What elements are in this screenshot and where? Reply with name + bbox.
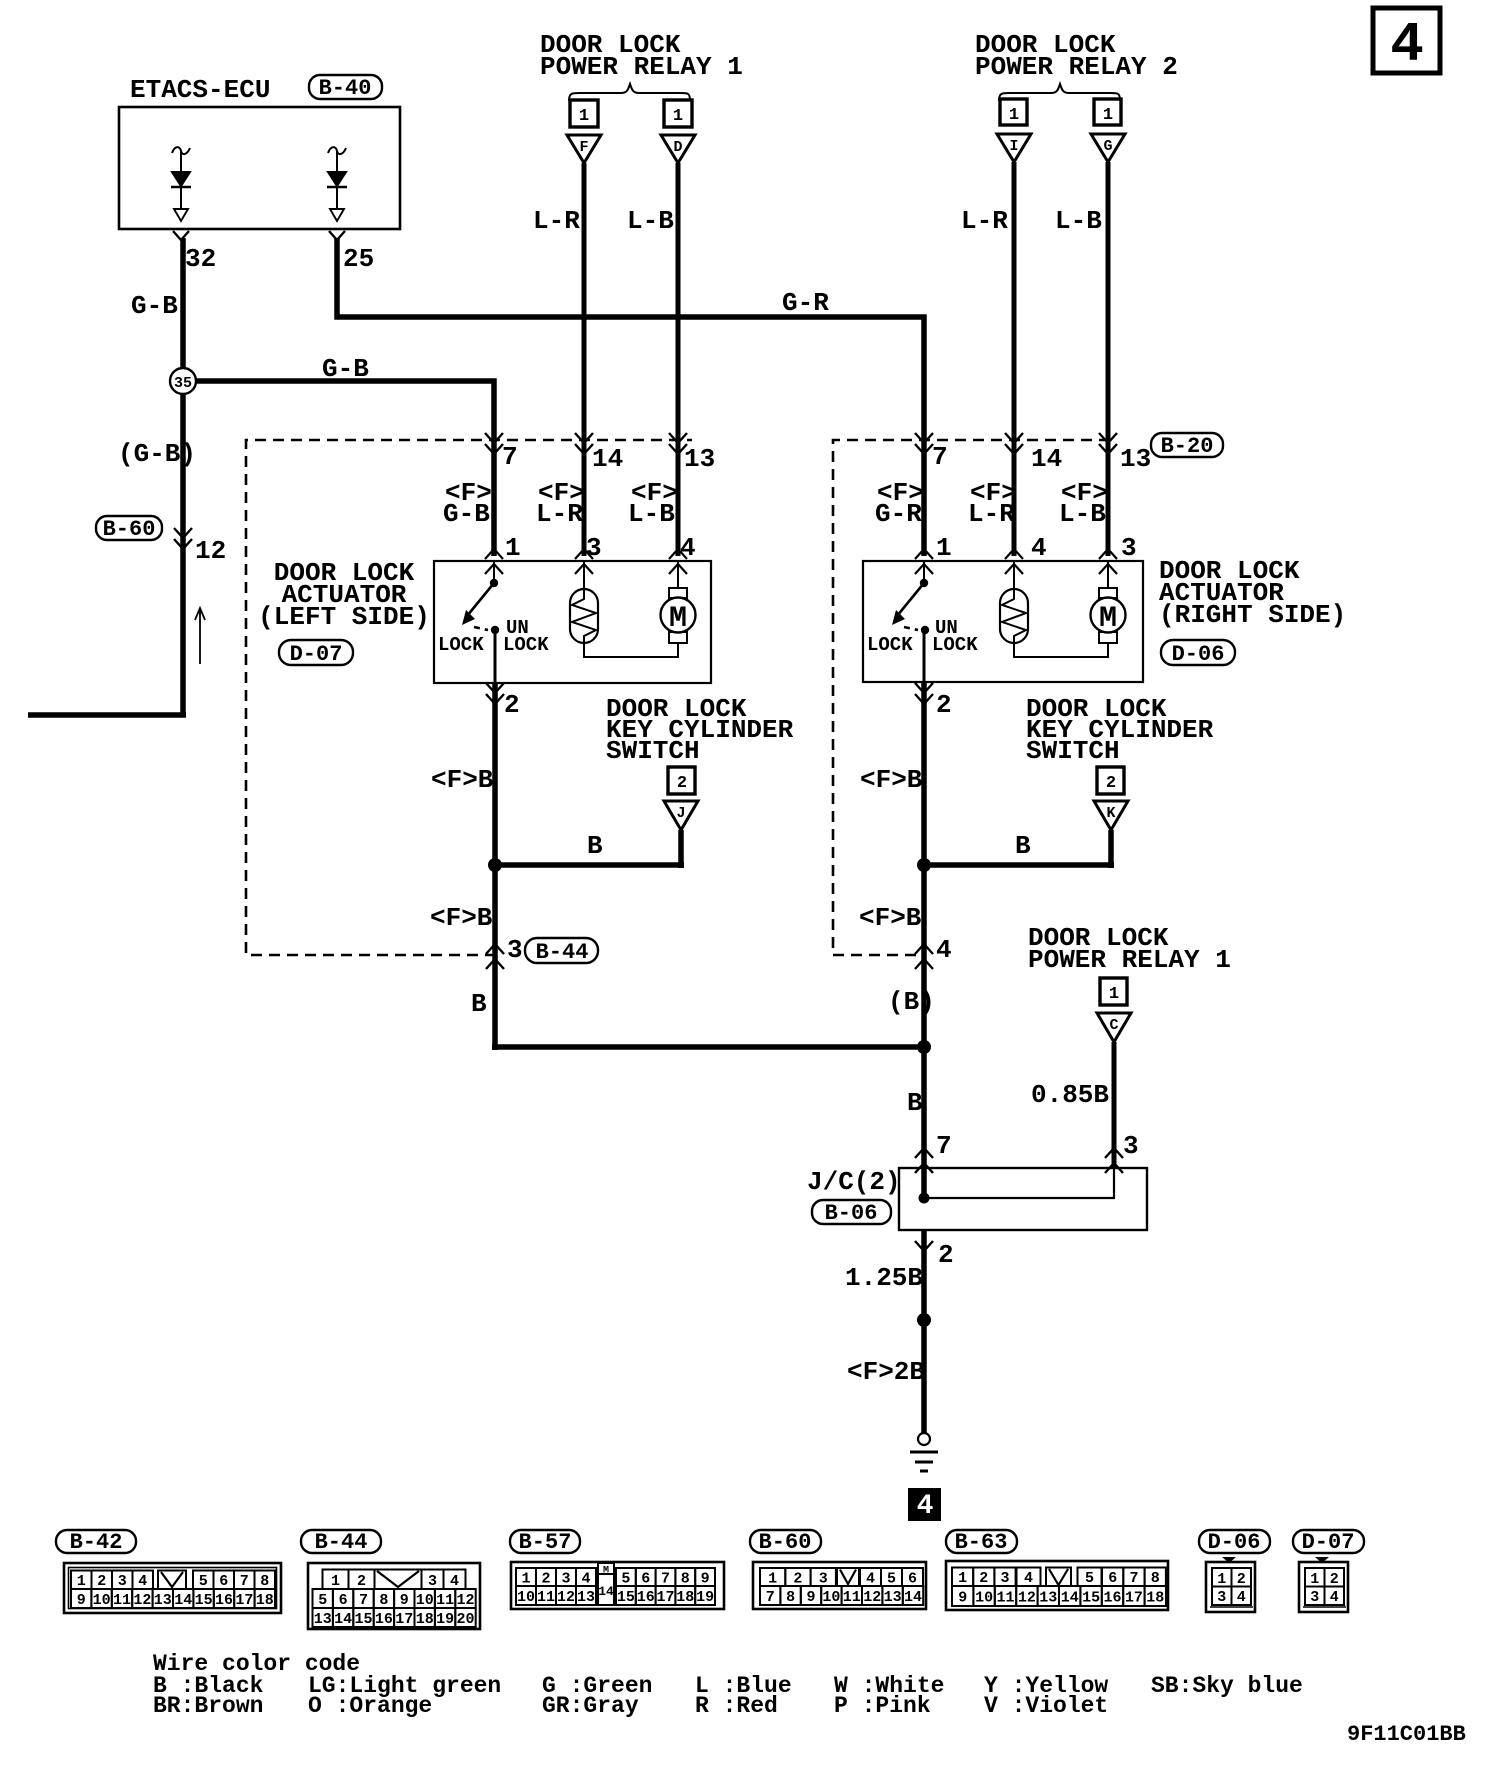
svg-text:18: 18 — [416, 1611, 434, 1628]
svg-text:17: 17 — [395, 1611, 413, 1628]
svg-text:1: 1 — [521, 1571, 530, 1588]
svg-text:<F>2B: <F>2B — [847, 1357, 925, 1387]
svg-text:<F>B: <F>B — [859, 903, 922, 933]
svg-text:B-42: B-42 — [70, 1530, 123, 1555]
svg-text:3: 3 — [1310, 1589, 1319, 1606]
svg-text:2: 2 — [938, 1240, 954, 1270]
svg-text:2: 2 — [677, 774, 687, 793]
connector pinout B-63 — [946, 1561, 1168, 1610]
wire label (F) L-R left — [536, 478, 585, 529]
connector badge B-06 — [812, 1200, 891, 1226]
svg-text:2: 2 — [504, 690, 520, 720]
connector pinout D-06 — [1206, 1557, 1255, 1612]
svg-text:14: 14 — [174, 1592, 192, 1609]
svg-text:4: 4 — [1031, 533, 1047, 563]
svg-text:12: 12 — [863, 1589, 881, 1606]
svg-text:3: 3 — [428, 1573, 437, 1590]
svg-text:4: 4 — [1390, 13, 1424, 77]
left key cylinder switch label — [606, 694, 794, 766]
right actuator dashed boundary box — [833, 440, 1114, 955]
svg-text:ETACS-ECU: ETACS-ECU — [130, 75, 270, 105]
svg-text:6: 6 — [1108, 1570, 1117, 1587]
chevrons at dashed box entry (left, pins 7 14 13) — [485, 433, 687, 454]
svg-text:5: 5 — [318, 1592, 327, 1609]
svg-text:11: 11 — [436, 1592, 454, 1609]
relay 2 triangle connector G — [1091, 134, 1125, 162]
svg-text:B: B — [587, 831, 603, 861]
svg-text:17: 17 — [235, 1592, 253, 1609]
svg-text:B-63: B-63 — [955, 1530, 1008, 1555]
svg-text:9: 9 — [77, 1592, 86, 1609]
svg-text:1: 1 — [673, 107, 683, 126]
ground reference black box 4 — [908, 1488, 941, 1522]
right switch pin1 stub — [923, 561, 925, 580]
relay 1 triangle connector D — [661, 135, 695, 163]
svg-text:POWER RELAY 1: POWER RELAY 1 — [540, 52, 743, 82]
svg-text:LOCK: LOCK — [932, 634, 978, 656]
svg-text:L-B: L-B — [1055, 206, 1102, 236]
svg-text:13: 13 — [314, 1611, 332, 1628]
wire label (F) G-R right — [875, 478, 924, 529]
svg-text:SWITCH: SWITCH — [1026, 736, 1120, 766]
wire L-R from relay2 I — [1012, 162, 1017, 556]
connector badge D-07 — [279, 640, 353, 667]
relay 1 pin box [1] (C) — [1100, 978, 1127, 1005]
wire G-B horizontal to left actuator pin 7 — [183, 381, 494, 556]
svg-text:7: 7 — [661, 1571, 670, 1588]
svg-text:2: 2 — [1330, 1571, 1339, 1588]
svg-text:11: 11 — [843, 1589, 861, 1606]
left switch blade end arrowhead — [462, 610, 475, 625]
left actuator label — [258, 558, 430, 632]
svg-text:1: 1 — [1109, 985, 1119, 1004]
relay 2 pin box [1] (G) — [1094, 99, 1121, 125]
svg-text:15: 15 — [354, 1611, 372, 1628]
wire G-R from pin 25 to right actuator pin 7 — [337, 238, 924, 556]
chevrons at J/C entry pin 7 — [915, 1148, 933, 1173]
svg-text:SB:Sky blue: SB:Sky blue — [1151, 1673, 1303, 1699]
relay 2 pin box [1] (I) — [1000, 99, 1027, 125]
svg-text:2: 2 — [541, 1571, 550, 1588]
svg-text:35: 35 — [174, 375, 192, 392]
DOOR LOCK POWER RELAY 2 label — [975, 30, 1178, 82]
svg-text:<F>B: <F>B — [431, 765, 494, 795]
svg-text:11: 11 — [113, 1592, 131, 1609]
svg-text:2: 2 — [1237, 1571, 1246, 1588]
svg-text:18: 18 — [676, 1589, 694, 1606]
svg-text:7: 7 — [240, 1573, 249, 1590]
svg-text:5: 5 — [887, 1571, 896, 1588]
svg-text:9: 9 — [806, 1589, 815, 1606]
svg-text:9: 9 — [701, 1571, 710, 1588]
chevrons at dashed box entry (right, pins 7 14 13) — [915, 433, 1117, 454]
svg-text:10: 10 — [517, 1589, 535, 1606]
chevrons at pin 2 exit (right) — [915, 683, 933, 704]
svg-text:G-R: G-R — [782, 288, 829, 318]
connector badge D-06 — [1161, 640, 1235, 667]
svg-text:14: 14 — [592, 444, 623, 474]
svg-text:3: 3 — [1121, 533, 1137, 563]
J/C(2) box — [899, 1168, 1147, 1230]
svg-text:1: 1 — [579, 107, 589, 126]
svg-text:L-R: L-R — [536, 499, 583, 529]
svg-text:G-R: G-R — [875, 499, 922, 529]
svg-text:LOCK: LOCK — [438, 634, 484, 656]
svg-text:V :Violet: V :Violet — [984, 1693, 1108, 1719]
svg-text:8: 8 — [1151, 1570, 1160, 1587]
relay 2 triangle connector I — [997, 134, 1031, 162]
junction dot lower — [917, 1313, 931, 1327]
svg-text:1: 1 — [768, 1571, 777, 1588]
svg-text:8: 8 — [681, 1571, 690, 1588]
svg-text:9: 9 — [958, 1590, 967, 1607]
svg-text:B-44: B-44 — [315, 1530, 368, 1555]
right key cylinder switch label — [1026, 694, 1214, 766]
connector chevron at B-60 crossing — [174, 528, 192, 549]
svg-text:8: 8 — [379, 1592, 388, 1609]
svg-text:16: 16 — [215, 1592, 233, 1609]
left actuator dashed boundary box — [246, 440, 692, 955]
svg-text:(LEFT SIDE): (LEFT SIDE) — [258, 602, 430, 632]
svg-text:15: 15 — [617, 1589, 635, 1606]
svg-text:B: B — [471, 989, 487, 1019]
svg-text:1: 1 — [77, 1573, 86, 1590]
svg-text:M: M — [1099, 602, 1117, 636]
svg-text:5: 5 — [199, 1573, 208, 1590]
badge D-07 — [1293, 1530, 1364, 1555]
chevrons at pin 2 exit (left) — [486, 683, 504, 704]
svg-text:7: 7 — [1129, 1570, 1138, 1587]
wire pin2 down (left) — [492, 683, 498, 865]
svg-text:32: 32 — [185, 244, 216, 274]
svg-text:19: 19 — [436, 1611, 454, 1628]
svg-text:3: 3 — [118, 1573, 127, 1590]
connector badge B-40 — [309, 75, 382, 101]
badge B-44 — [301, 1530, 381, 1555]
left coil pin3 stub — [583, 561, 585, 588]
svg-text:7: 7 — [936, 1131, 952, 1161]
wire G-B main vertical from pin 32 — [180, 238, 186, 715]
svg-text:<F>B: <F>B — [860, 765, 923, 795]
svg-text:5: 5 — [621, 1571, 630, 1588]
UN LOCK label (left) — [503, 617, 549, 656]
right actuator motor M2 — [1091, 588, 1126, 643]
junction dot right B — [917, 858, 931, 872]
svg-text:4: 4 — [1024, 1570, 1033, 1587]
wire label (F) L-R right — [968, 478, 1017, 529]
svg-text:4: 4 — [680, 533, 696, 563]
left switch dashed throw — [474, 627, 488, 630]
svg-text:16: 16 — [375, 1611, 393, 1628]
wire left chain down to main junction — [492, 865, 924, 1050]
right coil pin4 stub — [1013, 561, 1015, 588]
svg-text:L-R: L-R — [533, 206, 580, 236]
wire from J/C pin 2 down to ground — [921, 1230, 927, 1433]
svg-text:LOCK: LOCK — [867, 634, 913, 656]
left switch unlock contact dot — [491, 626, 499, 634]
svg-text:B-60: B-60 — [103, 517, 156, 542]
svg-text:17: 17 — [656, 1589, 674, 1606]
chevron at J/C exit pin 2 — [915, 1241, 933, 1251]
wire 0.85B from C to J/C — [1112, 1042, 1117, 1168]
page number box 4 (top right) — [1373, 8, 1440, 77]
svg-text:15: 15 — [1082, 1590, 1100, 1607]
wire label (F) L-B left — [628, 478, 678, 529]
svg-text:R :Red: R :Red — [695, 1693, 778, 1719]
left coil to motor bottom link — [584, 643, 678, 657]
svg-text:<F>B: <F>B — [430, 903, 493, 933]
svg-text:L-B: L-B — [627, 206, 674, 236]
left switch unlock stub to pin 2 — [494, 630, 497, 683]
svg-text:9: 9 — [400, 1592, 409, 1609]
chevrons at J/C entry pin 3 — [1105, 1148, 1123, 1173]
connector badge B-44 (mid) — [525, 938, 598, 965]
svg-text:6: 6 — [339, 1592, 348, 1609]
node 35 junction circle — [170, 368, 196, 394]
svg-text:2: 2 — [357, 1573, 366, 1590]
direction arrow (up) — [195, 608, 205, 664]
svg-text:3: 3 — [1123, 1131, 1139, 1161]
svg-text:4: 4 — [866, 1571, 875, 1588]
svg-text:3: 3 — [561, 1571, 570, 1588]
left switch blade — [467, 583, 494, 616]
svg-text:13: 13 — [684, 444, 715, 474]
left switch pivot dot — [490, 579, 498, 587]
svg-text:13: 13 — [154, 1592, 172, 1609]
diode D2 (inside ETACS, right) — [327, 147, 347, 221]
right coil to motor bottom link — [1014, 643, 1108, 657]
svg-text:14: 14 — [904, 1589, 922, 1606]
diode D1 (inside ETACS, left) — [171, 147, 191, 221]
svg-text:G-B: G-B — [131, 291, 178, 321]
svg-text:B-06: B-06 — [825, 1201, 878, 1226]
connector pinout B-60 — [753, 1562, 926, 1609]
svg-text:F: F — [579, 139, 588, 156]
svg-text:13: 13 — [884, 1589, 902, 1606]
svg-text:LOCK: LOCK — [503, 634, 549, 656]
svg-text:8: 8 — [786, 1589, 795, 1606]
left key cylinder triangle connector J — [664, 801, 698, 830]
svg-text:D-07: D-07 — [1302, 1530, 1355, 1555]
svg-text:2: 2 — [979, 1570, 988, 1587]
svg-text:7: 7 — [766, 1589, 775, 1606]
UN LOCK label (right) — [932, 617, 978, 656]
relay 1 pin box [1] (D) — [664, 100, 692, 127]
wire L-R from relay1 F — [582, 163, 587, 556]
svg-text:18: 18 — [1146, 1590, 1164, 1607]
svg-text:2: 2 — [793, 1571, 802, 1588]
svg-text:4: 4 — [581, 1571, 590, 1588]
right key cylinder pin box [2] — [1097, 767, 1124, 794]
svg-text:L-B: L-B — [628, 499, 675, 529]
svg-text:14: 14 — [334, 1611, 352, 1628]
svg-text:B-44: B-44 — [536, 940, 589, 965]
connector pinout D-07 — [1299, 1557, 1348, 1612]
svg-text:8: 8 — [260, 1573, 269, 1590]
ground symbol — [910, 1433, 938, 1471]
svg-text:12: 12 — [195, 536, 226, 566]
svg-text:1: 1 — [505, 533, 521, 563]
svg-text:17: 17 — [1125, 1590, 1143, 1607]
svg-text:3: 3 — [1000, 1570, 1009, 1587]
svg-text:5: 5 — [1085, 1570, 1094, 1587]
right key cylinder triangle connector K — [1094, 801, 1128, 830]
right switch dashed throw — [904, 627, 918, 630]
relay 1 pin box [1] (F) — [570, 100, 598, 127]
svg-text:4: 4 — [936, 935, 952, 965]
svg-text:2: 2 — [97, 1573, 106, 1590]
svg-text:POWER RELAY 1: POWER RELAY 1 — [1028, 945, 1231, 975]
main junction dot — [917, 1040, 931, 1054]
svg-text:10: 10 — [416, 1592, 434, 1609]
svg-text:3: 3 — [1217, 1589, 1226, 1606]
badge D-06 — [1199, 1530, 1270, 1555]
svg-text:6: 6 — [641, 1571, 650, 1588]
svg-text:(G-B): (G-B) — [118, 439, 196, 469]
svg-text:1.25B: 1.25B — [845, 1263, 923, 1293]
pin 25 connector chevron — [329, 231, 345, 240]
left motor pin4 stub — [677, 561, 679, 588]
svg-text:7: 7 — [359, 1592, 368, 1609]
svg-text:D-06: D-06 — [1208, 1530, 1261, 1555]
svg-text:12: 12 — [133, 1592, 151, 1609]
svg-text:16: 16 — [637, 1589, 655, 1606]
svg-text:C: C — [1109, 1017, 1118, 1034]
svg-text:12: 12 — [456, 1592, 474, 1609]
svg-text:14: 14 — [598, 1584, 614, 1599]
brace over relay 1 connectors — [569, 84, 690, 101]
chevrons at B-44 crossing (left pin 3) — [486, 944, 504, 969]
right actuator solid box D-06 — [863, 561, 1143, 682]
svg-text:B: B — [1015, 831, 1031, 861]
J/C internal bus — [919, 1168, 1115, 1204]
svg-text:2: 2 — [1106, 774, 1116, 793]
svg-text:J: J — [676, 805, 685, 822]
svg-text:SWITCH: SWITCH — [606, 736, 700, 766]
chevrons at right pin 4 crossing — [915, 944, 933, 969]
svg-text:1: 1 — [1217, 1571, 1226, 1588]
svg-text:B-60: B-60 — [759, 1530, 812, 1555]
connector pinout B-57 — [511, 1562, 724, 1609]
right switch unlock contact dot — [921, 626, 929, 634]
wire L-B from relay2 G — [1106, 162, 1111, 556]
ETACS-ECU box U1 — [119, 107, 400, 229]
badge B-60 — [750, 1530, 821, 1555]
svg-text:19: 19 — [696, 1589, 714, 1606]
svg-text:G-B: G-B — [443, 499, 490, 529]
right motor pin3 stub — [1107, 561, 1109, 588]
svg-text:BR:Brown: BR:Brown — [153, 1693, 263, 1719]
svg-text:10: 10 — [93, 1592, 111, 1609]
right actuator label — [1159, 556, 1346, 630]
svg-text:13: 13 — [1039, 1590, 1057, 1607]
svg-text:POWER RELAY 2: POWER RELAY 2 — [975, 52, 1178, 82]
svg-text:L-B: L-B — [1059, 499, 1106, 529]
chevrons at solid box entry (right) — [915, 549, 1117, 574]
svg-text:10: 10 — [975, 1590, 993, 1607]
left key cylinder pin box [2] — [668, 767, 695, 794]
svg-text:1: 1 — [1310, 1571, 1319, 1588]
pin 32 connector chevron — [173, 231, 189, 240]
DOOR LOCK POWER RELAY 1 label — [540, 30, 743, 82]
svg-text:4: 4 — [1330, 1589, 1339, 1606]
svg-text:25: 25 — [343, 244, 374, 274]
left actuator solid box D-07 — [434, 561, 711, 683]
svg-text:3: 3 — [586, 533, 602, 563]
wire elbow to left page edge — [28, 712, 186, 718]
svg-text:7: 7 — [502, 442, 518, 472]
svg-text:3: 3 — [507, 935, 523, 965]
svg-text:GR:Gray: GR:Gray — [542, 1693, 639, 1719]
svg-text:2: 2 — [936, 690, 952, 720]
svg-text:6: 6 — [219, 1573, 228, 1590]
svg-text:12: 12 — [1018, 1590, 1036, 1607]
wire pin2 down (right) — [921, 683, 927, 865]
junction dot left B — [488, 858, 502, 872]
svg-text:14: 14 — [1031, 444, 1062, 474]
svg-text:1: 1 — [936, 533, 952, 563]
connector pinout B-42 — [64, 1563, 281, 1613]
svg-text:P :Pink: P :Pink — [834, 1693, 931, 1719]
svg-text:0.85B: 0.85B — [1031, 1080, 1109, 1110]
svg-text:G-B: G-B — [322, 354, 369, 384]
svg-text:M: M — [669, 602, 687, 636]
svg-text:1: 1 — [331, 1573, 340, 1590]
right actuator coil L2 — [1000, 589, 1028, 643]
wire L-B from relay1 D — [676, 163, 681, 556]
wire label (F) G-B — [443, 478, 492, 529]
svg-text:B-57: B-57 — [519, 1530, 572, 1555]
badge B-57 — [510, 1530, 580, 1555]
svg-text:D-07: D-07 — [290, 642, 343, 667]
svg-text:B-20: B-20 — [1161, 434, 1214, 459]
right switch blade — [897, 583, 924, 616]
svg-text:L-R: L-R — [968, 499, 1015, 529]
relay 1 triangle connector C — [1097, 1013, 1131, 1042]
connector badge B-60 (left wire) — [96, 516, 162, 542]
svg-text:O :Orange: O :Orange — [308, 1693, 432, 1719]
svg-text:1: 1 — [1009, 106, 1019, 125]
svg-text:K: K — [1106, 805, 1115, 822]
svg-text:I: I — [1009, 138, 1018, 155]
svg-text:10: 10 — [822, 1589, 840, 1606]
DOOR LOCK POWER RELAY 1 label (bottom) — [1028, 923, 1231, 975]
wire from K down to B junction — [924, 830, 1114, 868]
svg-text:B-40: B-40 — [319, 76, 372, 101]
svg-text:18: 18 — [256, 1592, 274, 1609]
svg-text:3: 3 — [819, 1571, 828, 1588]
svg-text:4: 4 — [138, 1573, 147, 1590]
svg-text:9F11C01BB: 9F11C01BB — [1347, 1722, 1466, 1747]
svg-text:4: 4 — [917, 1491, 934, 1522]
svg-text:11: 11 — [996, 1590, 1014, 1607]
svg-text:20: 20 — [456, 1611, 474, 1628]
chevrons at solid box entry (left) — [485, 549, 687, 574]
badge B-63 — [946, 1530, 1017, 1555]
svg-text:4: 4 — [1237, 1589, 1246, 1606]
svg-text:15: 15 — [195, 1592, 213, 1609]
svg-text:4: 4 — [450, 1573, 459, 1590]
svg-text:12: 12 — [557, 1589, 575, 1606]
connector pinout B-44 — [308, 1563, 480, 1629]
wire right chain down to main junction — [921, 865, 927, 1198]
svg-text:1: 1 — [1103, 106, 1113, 125]
left actuator coil L1 — [570, 589, 598, 643]
wire from J down to B junction — [495, 830, 684, 868]
svg-text:16: 16 — [1103, 1590, 1121, 1607]
svg-text:D-06: D-06 — [1172, 642, 1225, 667]
right switch pivot dot — [920, 579, 928, 587]
